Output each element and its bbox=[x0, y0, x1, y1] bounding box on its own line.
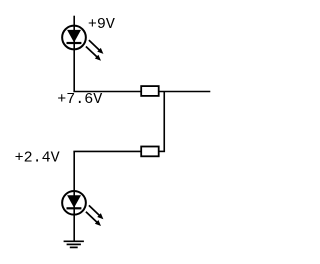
svg-text:+9V: +9V bbox=[88, 16, 115, 33]
svg-text:+2.4V: +2.4V bbox=[15, 150, 60, 167]
svg-text:+7.6V: +7.6V bbox=[57, 91, 102, 108]
